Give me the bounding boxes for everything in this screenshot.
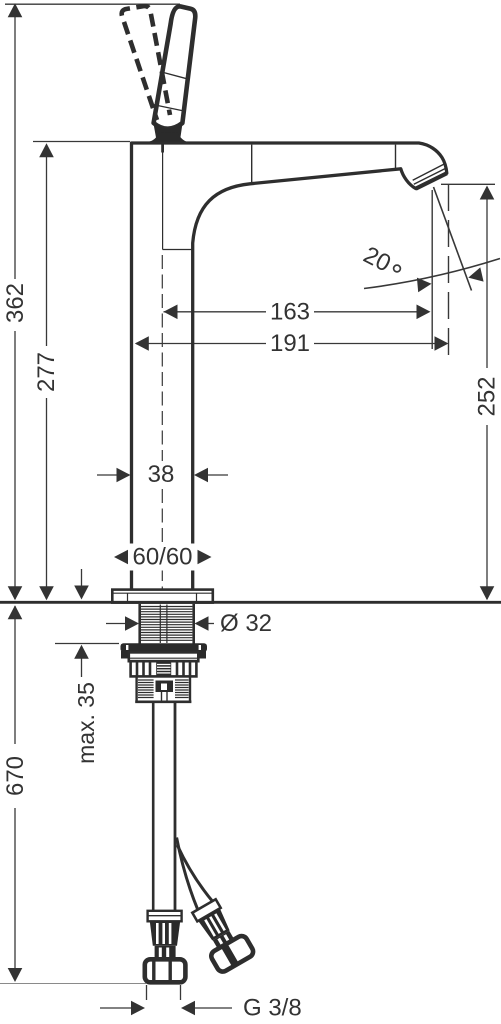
svg-text:191: 191: [270, 330, 310, 357]
svg-text:670: 670: [2, 756, 29, 796]
svg-text:G 3/8: G 3/8: [243, 995, 302, 1022]
svg-text:max. 35: max. 35: [73, 682, 99, 764]
svg-text:277: 277: [33, 352, 60, 392]
svg-text:38: 38: [148, 461, 175, 488]
svg-text:362: 362: [2, 283, 29, 323]
svg-text:60/60: 60/60: [132, 544, 192, 571]
svg-text:252: 252: [474, 376, 501, 416]
svg-text:Ø 32: Ø 32: [220, 610, 272, 637]
svg-text:163: 163: [270, 298, 310, 325]
